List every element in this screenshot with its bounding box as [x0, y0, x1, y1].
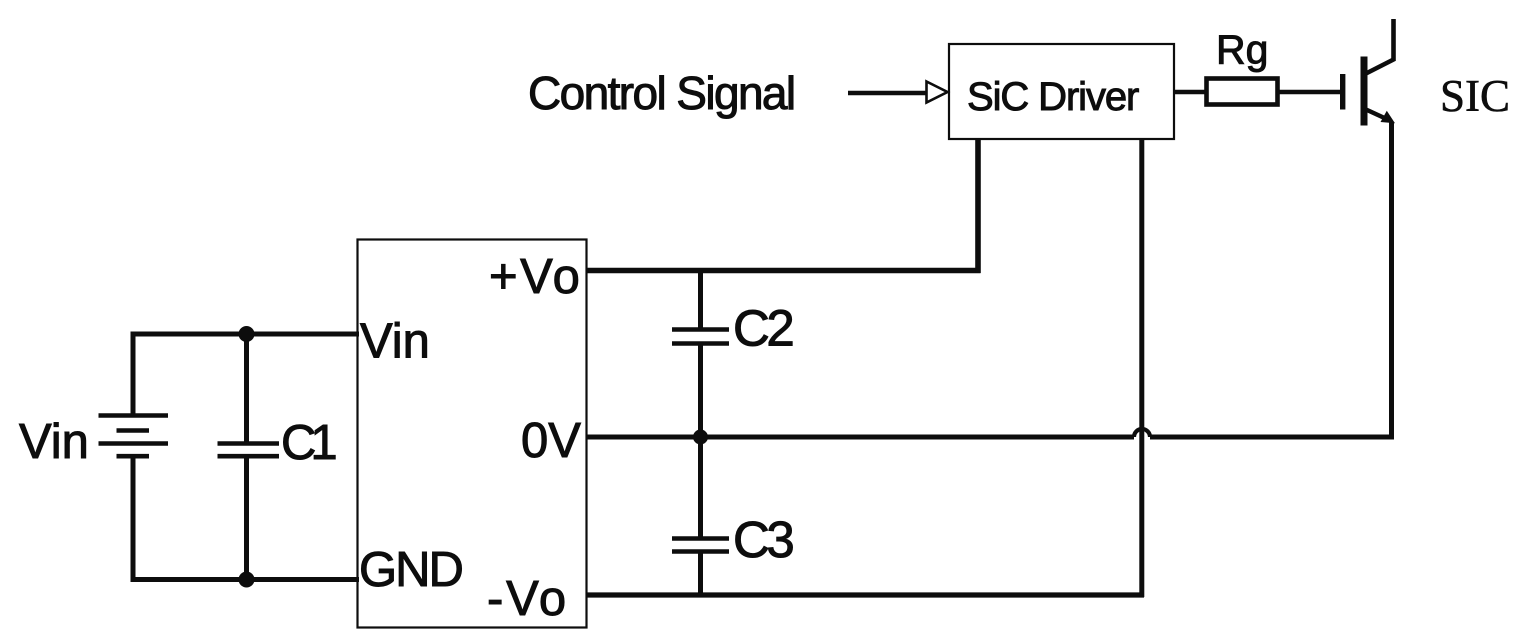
junction node (top-left)	[239, 326, 255, 342]
svg-text:GND: GND	[359, 543, 463, 597]
wire +Vo riser to driver pin	[975, 139, 981, 273]
converter module box U1	[358, 240, 587, 628]
svg-text:+Vo: +Vo	[489, 250, 582, 304]
wire driver output to Rg	[1174, 90, 1206, 94]
wire top-left rail (battery+ / C1 / Vin pin)	[131, 332, 360, 337]
wire 0V rail (left of hop)	[586, 435, 1134, 440]
wire -Vo rail	[586, 592, 1144, 597]
svg-text:Vin: Vin	[19, 415, 89, 469]
collector diagonal	[1366, 59, 1395, 74]
wire hop (crossover, no connection)	[1134, 429, 1150, 437]
svg-text:SiC Driver: SiC Driver	[967, 75, 1139, 119]
svg-text:Control Signal: Control Signal	[528, 67, 795, 119]
wire battery top lead	[131, 334, 136, 415]
svg-text:C3: C3	[733, 511, 793, 568]
svg-text:C2: C2	[733, 300, 792, 357]
emitter diagonal	[1366, 110, 1391, 122]
svg-text:C1: C1	[281, 416, 335, 470]
wire emitter lead down to 0V	[1389, 123, 1394, 438]
body bar	[1361, 57, 1368, 126]
wire bottom-left rail (battery- / C1 / GND pin)	[131, 577, 360, 582]
gate bar	[1340, 74, 1345, 110]
svg-text:0V: 0V	[521, 414, 581, 468]
emitter arrowhead	[1381, 111, 1396, 123]
capacitor C3	[672, 437, 729, 595]
svg-text:Rg: Rg	[1216, 27, 1268, 73]
SiC Driver box U2	[949, 44, 1174, 139]
wire 0V rail (right of hop)	[1150, 435, 1394, 440]
capacitor C2	[672, 270, 729, 437]
capacitor C1	[218, 334, 280, 580]
resistor Rg	[1207, 79, 1278, 105]
svg-text:-Vo: -Vo	[487, 572, 569, 626]
wire Rg to gate	[1277, 90, 1340, 94]
control signal arrow wire	[848, 91, 926, 95]
collector lead	[1391, 19, 1396, 61]
junction node (bottom-left)	[239, 572, 255, 588]
transistor Q1 (SiC IGBT)	[1343, 19, 1395, 126]
svg-text:SIC: SIC	[1440, 71, 1510, 121]
wire battery bottom lead	[131, 456, 136, 580]
junction node C2/C3/0V	[693, 430, 708, 445]
wire +Vo rail	[586, 268, 981, 274]
voltage source Vin (battery)	[99, 416, 169, 457]
wire driver right pin drop to -Vo	[1139, 139, 1144, 597]
control signal arrowhead (open triangle)	[927, 82, 948, 103]
svg-text:Vin: Vin	[360, 315, 430, 369]
